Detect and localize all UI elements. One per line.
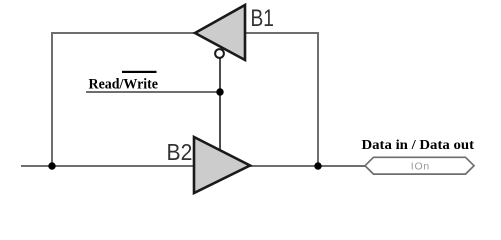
wire: top horizontal from left corner to B1 output tip [52,32,196,34]
wire: left vertical drop [51,32,53,166]
node: junction on bottom wire at right vertical [314,162,321,169]
svg-text:Read/Write: Read/Write [89,77,159,93]
wire: enable vertical from B1 bubble to B2 [219,58,221,152]
overbar on Write [122,71,157,73]
wire: B1 input from right edge then down right vertical [245,33,318,166]
svg-text:B1: B1 [251,5,274,32]
buffer B1 (tri-state, points left) [195,5,245,60]
label Data in / Data out [362,137,475,152]
port IOn hexagon [365,157,474,174]
wire: bottom horizontal left segment to B2 input [21,165,195,167]
label IOn [411,161,430,173]
label B1 [251,5,274,32]
node: junction of Read/Write line and enable line [216,88,223,95]
buffer B2 (tri-state, points right) [194,137,250,193]
inversion bubble on B1 enable [215,49,224,58]
wire: bottom horizontal right segment from B2 output to IOn port [249,165,366,167]
svg-text:IOn: IOn [411,161,430,173]
label B2 [167,139,193,165]
node: junction on bottom wire at left vertical [48,162,55,169]
wire: Read/Write control line [86,91,220,93]
svg-text:B2: B2 [167,139,193,165]
label Read/Write [89,77,159,93]
svg-text:Data in / Data out: Data in / Data out [362,137,475,152]
